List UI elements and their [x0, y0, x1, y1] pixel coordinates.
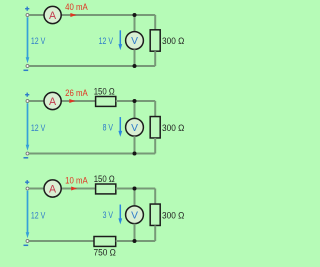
junction dot top (circuit 1): [133, 13, 137, 17]
svg-text:12 V: 12 V: [31, 36, 46, 47]
svg-text:10 mA: 10 mA: [65, 175, 88, 186]
svg-text:12 V: 12 V: [31, 123, 46, 134]
svg-text:V: V: [131, 210, 138, 221]
wire: bottom junction to right corner (circuit 3): [135, 240, 156, 242]
voltmeter (circuit 1): [126, 32, 144, 50]
svg-text:8 V: 8 V: [103, 123, 114, 134]
wire: top junction down to voltmeter (circuit 2): [134, 101, 136, 118]
junction dot top (circuit 2): [133, 99, 137, 103]
resistor 750 ohm (circuit 3): [94, 237, 116, 247]
svg-text:A: A: [49, 96, 57, 108]
ammeter (circuit 2): [44, 92, 61, 109]
resistor 300 ohm (circuit 2): [150, 117, 160, 138]
ammeter (circuit 3): [44, 180, 61, 197]
voltage source 12 V arrow (circuit 2): [26, 103, 30, 151]
wire: junction to right corner (circuit 2): [135, 100, 156, 102]
label - polarity (circuit 3): [24, 244, 29, 246]
current direction arrow (circuit 3): [71, 187, 77, 191]
wire: + node to ammeter (circuit 2): [29, 100, 44, 102]
wire: voltmeter down to bottom junction (circuit 1): [134, 49, 136, 66]
voltmeter (circuit 2): [126, 118, 144, 136]
label - polarity (circuit 2): [24, 157, 29, 159]
ammeter (circuit 1): [44, 6, 61, 23]
svg-text:300 Ω: 300 Ω: [162, 36, 184, 47]
junction dot bottom (circuit 1): [133, 64, 137, 68]
svg-text:12 V: 12 V: [99, 36, 114, 47]
svg-text:750 Ω: 750 Ω: [94, 248, 116, 259]
wire: 300 ohm resistor down to bottom corner (circuit 1): [154, 51, 156, 66]
wire: 300 ohm resistor down to bottom corner (circuit 2): [154, 138, 156, 154]
wire: 750 ohm resistor to bottom junction (circuit 3): [116, 240, 135, 242]
svg-text:V: V: [131, 123, 138, 134]
current direction arrow (circuit 1): [70, 13, 76, 17]
wire: 150 ohm resistor to junction (circuit 3): [116, 188, 135, 190]
voltage arrow at voltmeter (circuit 3): [118, 205, 122, 225]
wire: + node to ammeter (circuit 1): [29, 14, 44, 16]
svg-text:40 mA: 40 mA: [65, 2, 88, 13]
voltmeter (circuit 3): [126, 206, 144, 224]
current direction arrow (circuit 2): [69, 99, 75, 103]
resistor 150 ohm (circuit 2): [96, 97, 116, 107]
voltage arrow at voltmeter (circuit 2): [118, 117, 122, 137]
junction dot bottom (circuit 3): [133, 239, 137, 243]
voltage arrow at voltmeter (circuit 1): [118, 30, 122, 50]
wire: - node to 750 ohm resistor (circuit 3): [29, 240, 94, 242]
resistor 300 ohm (circuit 3): [150, 204, 160, 225]
svg-text:A: A: [49, 10, 57, 22]
node: - terminal of source (circuit 1): [26, 65, 29, 68]
wire: ammeter to 150 ohm resistor (circuit 2): [61, 100, 95, 102]
junction dot bottom (circuit 2): [133, 152, 137, 156]
node: + terminal of source (circuit 2): [26, 100, 29, 103]
svg-text:26 mA: 26 mA: [65, 88, 88, 99]
svg-text:150 Ω: 150 Ω: [94, 174, 115, 185]
wire: right corner down to 300 ohm resistor (circuit 2): [154, 101, 156, 117]
svg-text:300 Ω: 300 Ω: [162, 210, 184, 221]
label + polarity (circuit 3): [25, 180, 29, 184]
label + polarity (circuit 1): [25, 7, 29, 11]
wire: bottom rail (circuit 2): [29, 153, 155, 155]
resistor 150 ohm (circuit 3): [96, 184, 116, 194]
node: + terminal of source (circuit 1): [26, 14, 29, 17]
wire: junction to right corner (circuit 1): [135, 14, 156, 16]
junction dot top (circuit 3): [133, 187, 137, 191]
wire: junction to right corner (circuit 3): [135, 188, 156, 190]
resistor 300 ohm (circuit 1): [150, 30, 160, 51]
wire: bottom rail (circuit 1): [29, 65, 155, 67]
wire: + node to ammeter (circuit 3): [29, 188, 44, 190]
svg-text:300 Ω: 300 Ω: [162, 123, 184, 134]
wire: ammeter to 150 ohm resistor (circuit 3): [61, 188, 95, 190]
svg-text:12 V: 12 V: [31, 210, 46, 221]
svg-text:A: A: [49, 183, 57, 195]
wire: top junction down to voltmeter (circuit 1): [134, 15, 136, 32]
wire: 300 ohm resistor down to bottom corner (circuit 3): [154, 225, 156, 241]
svg-text:3 V: 3 V: [103, 210, 114, 221]
label - polarity (circuit 1): [24, 69, 29, 71]
node: - terminal of source (circuit 2): [26, 152, 29, 155]
wire: 150 ohm resistor to junction (circuit 2): [116, 100, 135, 102]
wire: right corner down to 300 ohm resistor (circuit 1): [154, 15, 156, 30]
wire: ammeter to junction (circuit 1): [61, 14, 134, 16]
wire: right corner down to 300 ohm resistor (circuit 3): [154, 189, 156, 205]
voltage source 12 V arrow (circuit 3): [26, 191, 30, 239]
voltage source 12 V arrow (circuit 1): [26, 17, 30, 63]
wire: voltmeter down to bottom junction (circuit 2): [134, 136, 136, 153]
svg-text:150 Ω: 150 Ω: [94, 87, 115, 98]
wire: top junction down to voltmeter (circuit 3): [134, 189, 136, 206]
wire: voltmeter down to bottom junction (circuit 3): [134, 224, 136, 241]
node: + terminal of source (circuit 3): [26, 187, 29, 190]
svg-text:V: V: [131, 36, 138, 47]
node: - terminal of source (circuit 3): [26, 240, 29, 243]
label + polarity (circuit 2): [25, 93, 29, 97]
